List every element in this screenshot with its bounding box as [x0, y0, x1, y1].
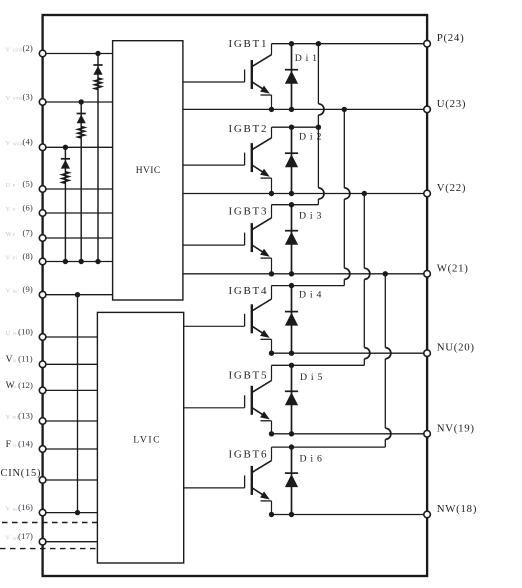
svg-text:D i 1: D i 1	[295, 53, 318, 64]
svg-text:VFB: VFB	[13, 96, 23, 101]
svg-text:P: P	[13, 232, 16, 237]
svg-text:P(24): P(24)	[437, 32, 465, 44]
svg-text:N: N	[13, 359, 17, 364]
svg-text:CIN(15): CIN(15)	[1, 468, 42, 479]
svg-text:NW(18): NW(18)	[437, 503, 477, 515]
svg-text:(14): (14)	[18, 438, 33, 448]
svg-text:(4): (4)	[22, 137, 32, 147]
svg-text:(5): (5)	[22, 178, 32, 188]
svg-text:(13): (13)	[18, 410, 33, 420]
svg-text:D i 4: D i 4	[299, 290, 322, 301]
svg-text:U: U	[6, 330, 11, 337]
svg-text:N: N	[13, 331, 17, 336]
svg-text:N: N	[13, 385, 17, 390]
svg-text:(12): (12)	[18, 380, 33, 390]
svg-text:IGBT2: IGBT2	[229, 123, 269, 135]
svg-text:(8): (8)	[22, 251, 32, 261]
svg-text:(17): (17)	[18, 531, 33, 541]
svg-text:NV(19): NV(19)	[437, 422, 475, 434]
svg-text:U(23): U(23)	[437, 98, 467, 110]
svg-text:(7): (7)	[22, 227, 32, 237]
svg-text:(3): (3)	[22, 91, 32, 101]
svg-text:V: V	[6, 505, 11, 512]
svg-text:V: V	[6, 95, 11, 102]
svg-text:P1: P1	[13, 256, 19, 261]
svg-text:D i 3: D i 3	[299, 211, 322, 222]
svg-text:IGBT4: IGBT4	[229, 285, 269, 297]
svg-text:V: V	[6, 206, 11, 213]
svg-text:V: V	[6, 535, 11, 542]
svg-text:F: F	[6, 440, 12, 450]
svg-text:(10): (10)	[18, 326, 33, 336]
svg-text:IGBT1: IGBT1	[229, 38, 269, 50]
svg-text:P: P	[13, 207, 16, 212]
svg-text:IGBT5: IGBT5	[229, 369, 269, 381]
svg-text:HVIC: HVIC	[136, 166, 161, 176]
svg-text:V: V	[6, 254, 11, 261]
svg-text:O: O	[13, 443, 17, 448]
svg-text:(2): (2)	[22, 43, 32, 53]
svg-text:W(21): W(21)	[437, 262, 469, 274]
svg-text:D i 2: D i 2	[299, 132, 322, 143]
svg-text:LVIC: LVIC	[133, 435, 161, 446]
svg-text:UFB: UFB	[13, 48, 23, 53]
svg-text:U: U	[6, 182, 11, 189]
svg-text:P: P	[13, 183, 16, 188]
svg-text:W: W	[6, 231, 13, 238]
svg-text:IGBT6: IGBT6	[229, 449, 269, 461]
svg-text:NU(20): NU(20)	[437, 342, 475, 354]
svg-text:(11): (11)	[18, 354, 33, 364]
svg-text:V: V	[6, 46, 11, 53]
svg-text:D i 6: D i 6	[300, 454, 323, 465]
svg-text:V: V	[6, 140, 11, 147]
svg-text:NC: NC	[13, 289, 20, 294]
svg-text:V(22): V(22)	[437, 182, 467, 194]
svg-text:(6): (6)	[22, 202, 32, 212]
svg-text:D i 5: D i 5	[300, 372, 323, 383]
svg-text:(9): (9)	[22, 284, 32, 294]
svg-text:IGBT3: IGBT3	[229, 206, 269, 218]
svg-text:V: V	[6, 414, 11, 421]
svg-text:V: V	[6, 288, 11, 295]
svg-text:(16): (16)	[18, 502, 33, 512]
